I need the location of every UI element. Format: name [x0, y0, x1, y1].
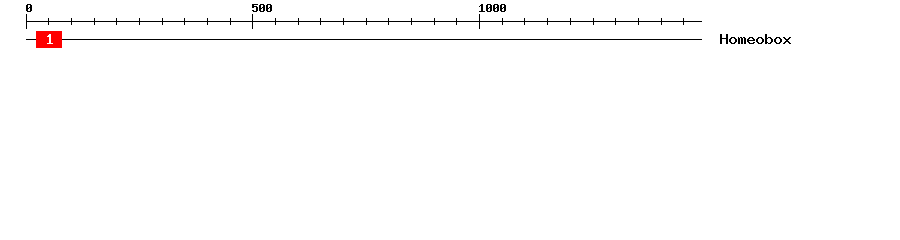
background: [0, 0, 900, 58]
sequence line: [26, 39, 702, 40]
ruler baseline: [26, 21, 702, 22]
ruler major ticks: [26, 14, 480, 29]
domain box number 1: [47, 34, 53, 44]
ruler label 500: [252, 4, 272, 12]
ruler label 0: [26, 4, 32, 12]
label Homeobox: [720, 34, 791, 44]
ruler label 1000: [479, 4, 506, 12]
domain box 1: [36, 31, 62, 48]
ruler minor ticks: [48, 18, 684, 25]
